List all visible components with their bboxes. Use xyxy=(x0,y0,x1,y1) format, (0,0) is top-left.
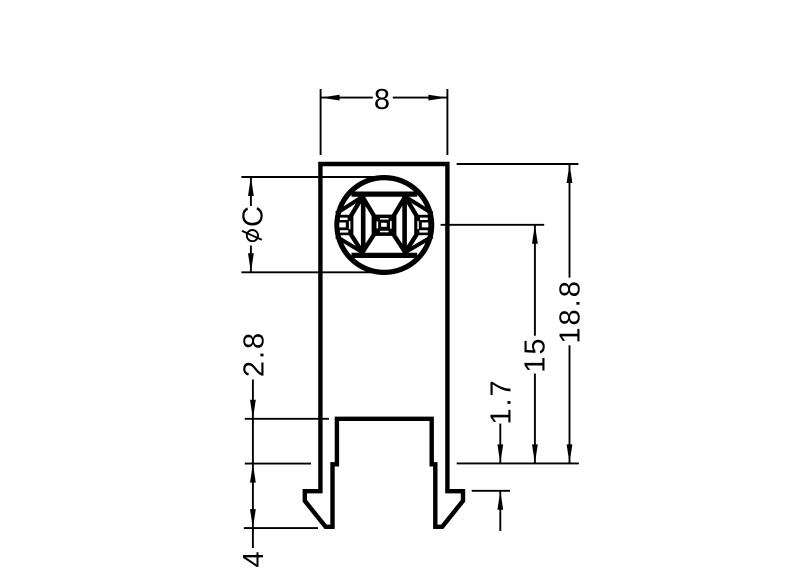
left hexagon center line xyxy=(361,197,366,253)
left hexagon facet xyxy=(351,197,374,253)
left facet diagonal lower xyxy=(336,236,362,252)
left facet diagonal upper xyxy=(336,197,362,214)
part body outline xyxy=(305,164,463,527)
dia C dim line xyxy=(250,177,252,206)
dim 1.7 lower arrow xyxy=(497,491,503,510)
center square block xyxy=(375,215,397,236)
boss center extension line xyxy=(441,224,545,226)
bottom tip extension line xyxy=(244,527,318,529)
step extension line left xyxy=(245,463,311,465)
right facet diagonal lower xyxy=(405,236,432,252)
top right extension line xyxy=(457,163,579,165)
dim 18.8 top arrow xyxy=(567,164,573,183)
left bracket block xyxy=(338,215,352,235)
right bracket block xyxy=(416,215,430,235)
dim 1.7 upper arrow xyxy=(497,444,503,463)
dim 18.8 line xyxy=(569,164,571,278)
svg-text:C: C xyxy=(237,204,269,227)
svg-text:2.8: 2.8 xyxy=(238,331,270,377)
svg-text:4: 4 xyxy=(238,549,270,567)
dim 15 line xyxy=(534,225,536,336)
dim 2.8 span line xyxy=(252,419,254,464)
svg-text:15: 15 xyxy=(520,336,552,372)
svg-text:18.8: 18.8 xyxy=(555,279,587,343)
boss bottom chord xyxy=(352,253,418,258)
dim 1.7 upper line xyxy=(499,424,501,464)
dia C bottom extension line xyxy=(241,271,384,273)
dim 2.8 upper line xyxy=(252,380,254,419)
slot top extension line xyxy=(245,418,329,420)
dim 2.8 upper arrow xyxy=(250,400,256,419)
boss top chord xyxy=(352,192,418,197)
dim 4 span line xyxy=(252,464,254,528)
dia C bottom arrow xyxy=(248,253,254,272)
dia C top extension line xyxy=(241,176,384,178)
knurled boss outer circle xyxy=(337,178,432,273)
hook top extension line xyxy=(472,490,510,492)
dim 1.7 lower line xyxy=(499,491,501,531)
dim 4 top arrow xyxy=(250,464,256,483)
dia symbol slash xyxy=(242,231,262,240)
dim 8 line xyxy=(321,97,373,99)
svg-text:8: 8 xyxy=(374,84,392,116)
right facet diagonal upper xyxy=(405,197,432,214)
right hexagon center line xyxy=(402,197,407,253)
bottom reference extension line xyxy=(457,462,579,464)
dim 8 right extension line xyxy=(446,89,448,155)
dim 4 bottom arrow xyxy=(250,509,256,528)
dia C top arrow xyxy=(248,177,254,196)
right hexagon facet xyxy=(394,197,417,253)
svg-text:1.7: 1.7 xyxy=(485,378,517,424)
dim 15 bottom arrow xyxy=(532,444,538,463)
dia symbol circle xyxy=(247,230,258,241)
dim 8 right arrow xyxy=(428,95,447,101)
dim 4 tail line xyxy=(252,528,254,548)
dim 8 left arrow xyxy=(321,95,340,101)
dim 18.8 bottom arrow xyxy=(567,444,573,463)
dim 15 top arrow xyxy=(532,225,538,244)
dim 8 left extension line xyxy=(320,89,322,155)
